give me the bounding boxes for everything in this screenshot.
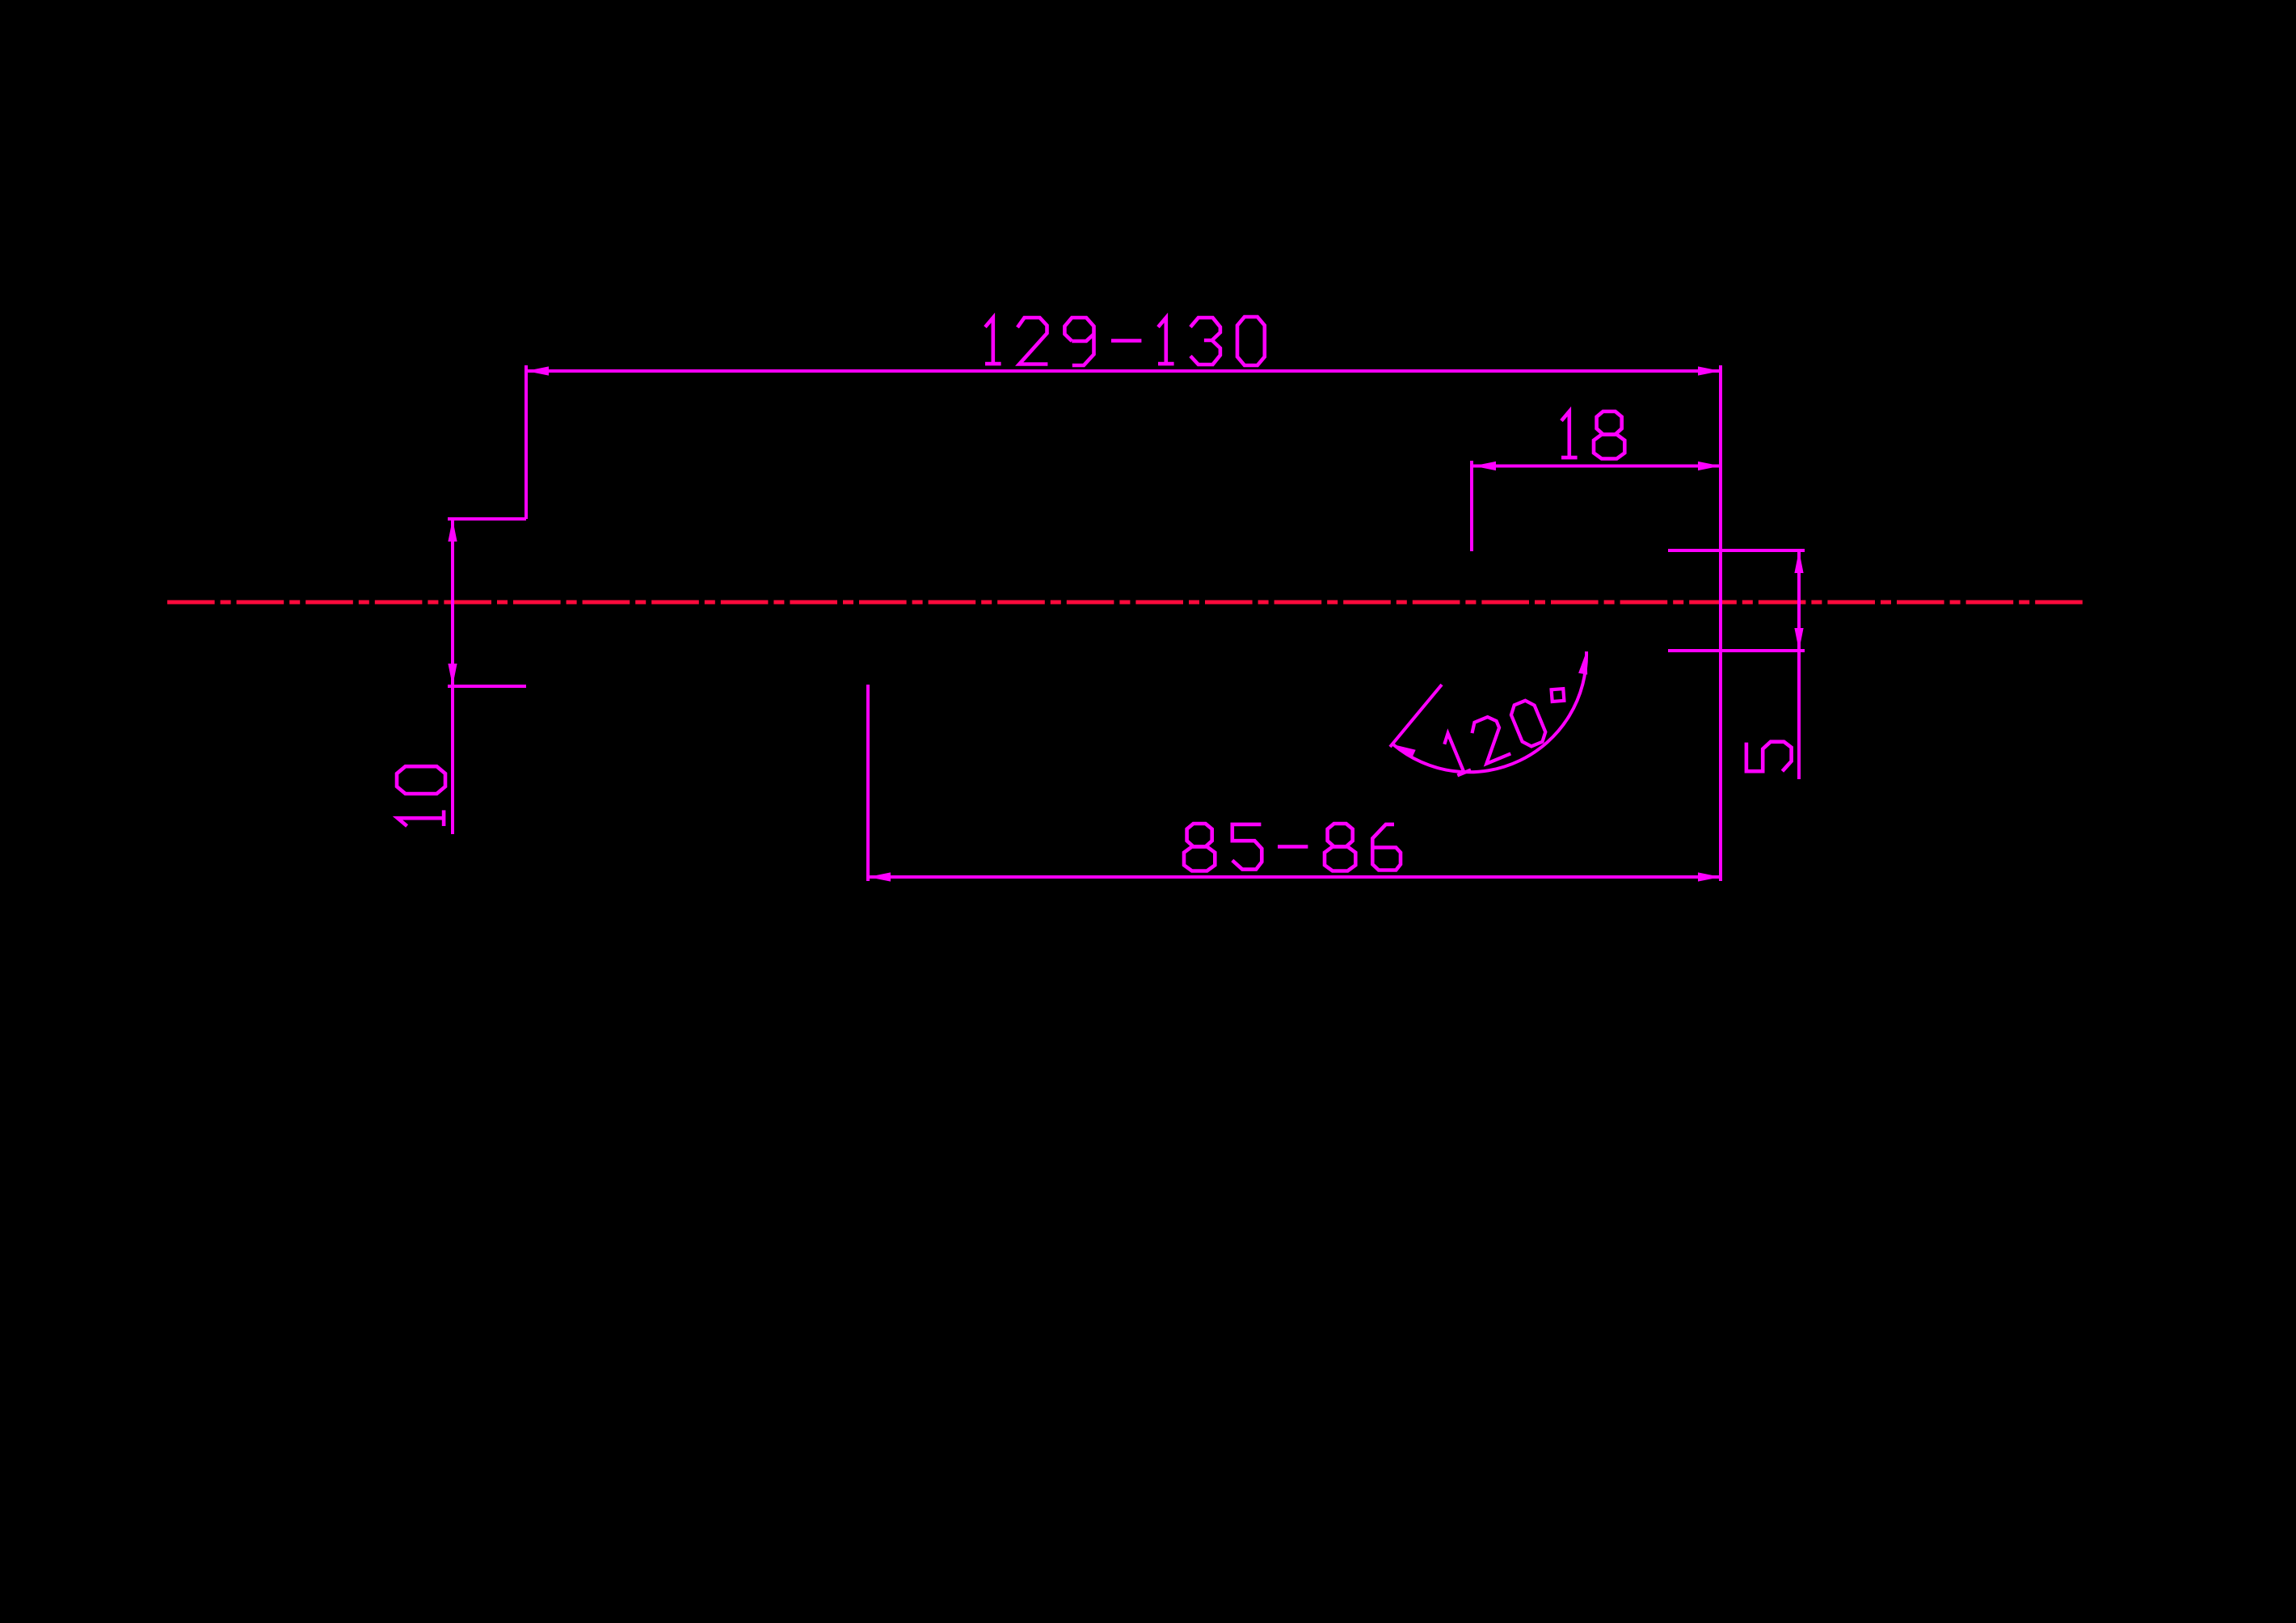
dim 120deg: left arrowhead [1393, 744, 1416, 758]
dim 5: lower extension line [1668, 649, 1805, 652]
dim 10: text [397, 766, 445, 826]
dim 129-130: dimension line [526, 369, 1721, 373]
centerline [167, 601, 2083, 605]
dim 5: bottom arrowhead [1794, 628, 1803, 651]
dim 85-86: text [1184, 824, 1401, 871]
dim 120deg: extension ray [1390, 685, 1442, 747]
dim 129-130: left extension line [524, 365, 528, 519]
dim 120deg: dimension arc [1393, 651, 1586, 772]
dim 85-86: dimension line [868, 875, 1721, 879]
dim 5: dimension line [1797, 550, 1801, 779]
dim 85-86: right arrowhead [1698, 872, 1721, 881]
dim 129-130: right arrowhead [1698, 366, 1721, 375]
upper step extension line [448, 517, 526, 521]
dim 10: top arrowhead [448, 519, 457, 542]
dim 18: right arrowhead [1698, 462, 1721, 470]
shared right extension line [1719, 365, 1722, 881]
dim 85-86: left arrowhead [868, 872, 891, 881]
dim 18: dimension line [1473, 465, 1721, 468]
dim 18: left arrowhead [1473, 462, 1496, 470]
dim 129-130: left arrowhead [526, 366, 549, 375]
dim 5: text [1746, 742, 1792, 772]
dim 120deg: right arrowhead [1578, 651, 1587, 675]
dim 18: text [1561, 411, 1624, 459]
dim 5: upper extension line [1668, 549, 1805, 552]
dim 85-86: left extension line [866, 685, 870, 881]
dim 129-130: text [985, 317, 1265, 365]
dim 120deg: text [1441, 685, 1579, 777]
dim 10: dimension line [451, 519, 454, 834]
dim 10: bottom arrowhead [448, 664, 457, 686]
dim 18: left extension line [1470, 461, 1473, 551]
dim 5: top arrowhead [1794, 550, 1803, 573]
lower step extension line [448, 685, 526, 688]
